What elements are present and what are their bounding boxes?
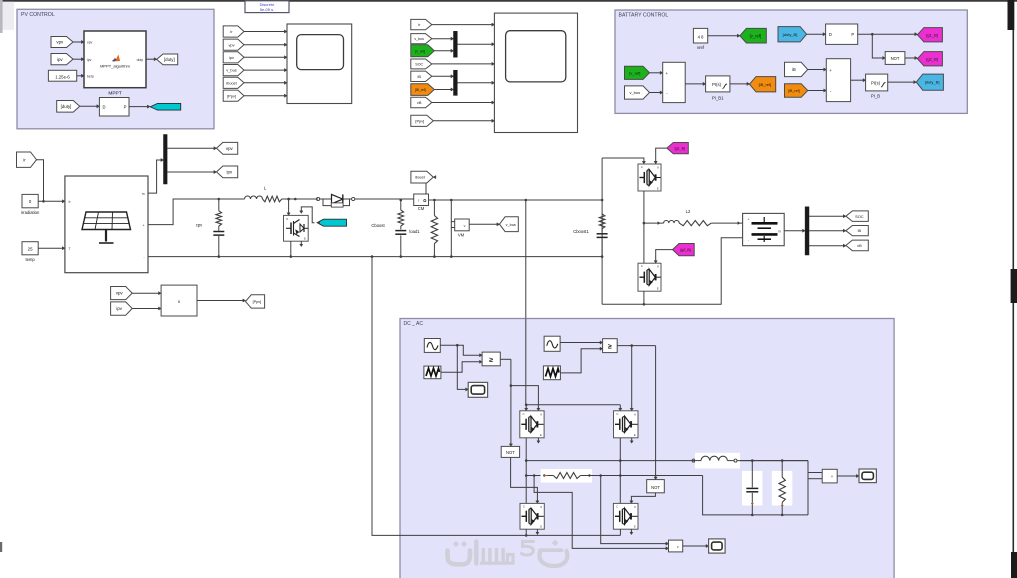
wire IGBT B2 emitter to bottom — [643, 291, 646, 305]
wire top rail to diode — [295, 198, 316, 200]
label cpv — [196, 222, 203, 227]
from tag ir (scope1) — [223, 26, 244, 37]
window top border line — [0, 0, 1017, 2]
wire MPPT duty out — [146, 58, 157, 61]
svg-text:vpv: vpv — [226, 146, 234, 151]
svg-text:P: P — [851, 32, 854, 37]
wire v_bus to sum1 — [650, 91, 663, 94]
wire PWM-B to g1_B — [858, 33, 918, 36]
wire cyan gate annotation to MOSFET gate — [300, 207, 315, 223]
wire VM branch vertical — [450, 200, 453, 258]
node load1 bottom — [433, 255, 436, 258]
svg-text:≥: ≥ — [489, 357, 493, 364]
wire PI_B to duty_B goto — [888, 81, 917, 84]
wire duty_B to PWM generator B — [807, 33, 826, 36]
svg-text:duty: duty — [137, 58, 144, 62]
svg-text:v_bus: v_bus — [629, 90, 640, 95]
node inductor input — [692, 459, 695, 462]
goto tag iboost — [411, 171, 433, 183]
node cpv bottom — [218, 255, 221, 258]
svg-text:T: T — [69, 247, 71, 251]
from tag [iB_ref] orange (scope2) — [411, 84, 435, 96]
wire battery m to demux — [784, 229, 805, 232]
subsystem area BATTARY CONTROL — [615, 10, 967, 113]
label PI_B — [871, 94, 880, 99]
wire ir to scope2 — [432, 23, 495, 26]
svg-text:[v_ref]: [v_ref] — [629, 70, 640, 75]
wire triangle1 to comparator1 — [441, 360, 482, 372]
svg-text:[iB_ref]: [iB_ref] — [788, 89, 799, 93]
svg-text:ipv: ipv — [229, 55, 234, 60]
label temp — [25, 257, 35, 262]
goto tag [duty_B] blue — [916, 74, 943, 90]
logic NOT 2 — [647, 480, 665, 493]
wire mux2 to scope2 — [457, 81, 494, 84]
svg-text:D: D — [829, 32, 832, 37]
wire VM3 to scope3 — [837, 474, 859, 477]
svg-text:iB: iB — [792, 67, 796, 72]
wire demux to vpv goto — [167, 147, 216, 150]
goto tag vB — [846, 240, 868, 251]
wire NOT to g2_B — [905, 56, 918, 59]
triangle wave source 2 — [543, 366, 560, 380]
wire temp to PV array — [38, 247, 65, 250]
node Cboost1 bottom rail junction — [601, 255, 604, 258]
from tag vpv (MPPT input) — [51, 37, 73, 48]
comparator >= 2 — [603, 339, 618, 353]
MATLAB function block MPPT_algorithm — [84, 31, 146, 88]
diode D1 with snubber — [317, 194, 355, 207]
filter capacitor Cf — [746, 459, 758, 516]
wire right leg — [619, 438, 622, 504]
goto tag ir (irradiance source) — [17, 152, 37, 167]
wire demux to SOC — [809, 215, 846, 218]
svg-text:+: + — [747, 217, 749, 221]
demux bus bar (vpv ipv) — [164, 135, 168, 185]
goto tag [g2_B] magenta — [917, 52, 942, 66]
wire g1_B to IGBT B1 gate — [654, 148, 667, 164]
from tag vB (scope2) — [411, 97, 432, 108]
scope block Scope1 — [287, 24, 352, 104]
comparator >= 1 — [482, 352, 500, 366]
svg-text:v_bus: v_bus — [506, 223, 516, 227]
mux1 (scope2) — [454, 31, 458, 57]
svg-text:[g1_B]: [g1_B] — [675, 147, 685, 151]
svg-text:vpv: vpv — [87, 41, 93, 45]
wire ipv to MPPT — [73, 58, 84, 61]
wire iboost to scope1 — [244, 81, 287, 84]
svg-text:[g2_B]: [g2_B] — [926, 56, 938, 61]
svg-text:[duty_B]: [duty_B] — [925, 80, 940, 85]
white patch behind filter capacitor — [742, 471, 762, 506]
wire vpv to scope1 — [244, 43, 287, 46]
svg-text:D: D — [102, 104, 105, 109]
svg-text:MPPT: MPPT — [108, 91, 121, 97]
wire PV - output to bottom rail — [148, 256, 602, 258]
from tag [iB_ref] orange (sum input) — [785, 84, 808, 98]
label Cboost — [371, 223, 385, 228]
wire vpv to MPPT — [73, 40, 84, 43]
wire ir to PV array Ir input — [37, 160, 45, 203]
svg-text:25: 25 — [28, 246, 33, 251]
from tag [Ppv] (scope1) — [223, 90, 244, 101]
svg-text:load1: load1 — [409, 229, 420, 234]
svg-text:NOT: NOT — [891, 56, 900, 61]
svg-text:DC _ AC: DC _ AC — [404, 321, 424, 327]
label PI_B1 — [712, 96, 724, 101]
svg-text:SOC: SOC — [855, 214, 864, 219]
wire diode to CM — [355, 198, 414, 200]
wire comparator1 output down — [500, 359, 512, 446]
PWM generator block D-P — [99, 98, 129, 117]
svg-text:[duty_B]: [duty_B] — [783, 32, 798, 37]
RC branch cpv — [213, 199, 224, 257]
from tag iB (sum input) — [785, 62, 808, 76]
series RL branch L — [245, 196, 319, 202]
filter inductor Lf — [694, 456, 808, 462]
IGBT B1 (battery upper) — [638, 164, 661, 191]
constant 48 (vref) — [693, 28, 707, 43]
wire sine1 branch to display — [457, 345, 468, 391]
logic NOT block (battery) — [885, 52, 905, 65]
wire PV m output to demux — [148, 158, 164, 193]
goto tag vpv (measured) — [217, 142, 238, 154]
svg-text:PI_B: PI_B — [871, 94, 880, 99]
wire irradiation to PV array — [38, 200, 65, 203]
current measurement CM — [414, 194, 429, 206]
svg-text:v: v — [677, 545, 679, 549]
svg-text:[iB_ref]: [iB_ref] — [415, 88, 426, 92]
wire NOT2 to IGBT H4 gate — [630, 493, 656, 504]
wire inverter bottom rail — [525, 529, 621, 537]
wire CM out along top rail — [429, 199, 603, 201]
wire ipv to product — [132, 307, 161, 310]
svg-text:CM: CM — [418, 206, 425, 211]
label MPPT — [108, 91, 121, 97]
svg-text:E: E — [634, 525, 636, 529]
wire filter right end — [807, 461, 809, 515]
wire rail B down to filter bottom — [703, 476, 808, 515]
wire vref to goto — [708, 34, 740, 37]
wire PWM to cyan tag — [129, 105, 150, 108]
voltage measurement VM2 — [669, 540, 683, 552]
IGBT H4 (lower right) — [613, 503, 638, 529]
IGBT H1 emitter stub — [537, 438, 540, 443]
wire iB_ref to sum2 — [808, 89, 827, 92]
MOSFET switch block — [284, 215, 309, 241]
svg-text:vref: vref — [697, 45, 705, 50]
wire comparator2 output — [617, 344, 655, 347]
logic NOT 1 — [501, 446, 519, 457]
IGBT H4 emitter stub — [630, 529, 633, 534]
from tag v_bus (scope1) — [223, 65, 244, 76]
RC branch Cboost1 — [597, 214, 608, 257]
white patch behind load resistor — [772, 471, 793, 506]
svg-text:[duty]: [duty] — [164, 57, 175, 62]
RC branch Cboost — [395, 200, 406, 257]
svg-text:[g2_B]: [g2_B] — [680, 248, 690, 252]
wire rail to MOSFET — [287, 199, 290, 215]
svg-text:ipv: ipv — [226, 170, 232, 175]
from tag ipv (MPPT input) — [51, 54, 73, 65]
svg-text:E: E — [304, 237, 306, 241]
goto tag [duty] — [157, 54, 178, 65]
wire comparator1 to IGBT1 gate — [511, 386, 540, 411]
wire sum1 to PI_B1 — [685, 82, 705, 85]
svg-text:PI(s): PI(s) — [712, 82, 722, 87]
subsystem area PV CONTROL — [17, 9, 214, 129]
constant 1.25e-6 (beta) — [48, 70, 76, 81]
sine wave source 2 — [544, 336, 560, 351]
svg-text:MPPT_algorithm: MPPT_algorithm — [100, 64, 130, 69]
svg-text:[iB_ref]: [iB_ref] — [759, 82, 772, 87]
battery block — [743, 213, 785, 245]
cyan annotation arrow (PV control) — [150, 103, 181, 110]
wire iB to mux2 — [432, 75, 454, 78]
PV array block — [65, 176, 148, 273]
svg-text:irradiation: irradiation — [21, 210, 40, 215]
wire v_bus positive down to inverter — [525, 200, 527, 405]
wire AC rail B (series resistor) — [526, 474, 544, 477]
node cpv top — [218, 198, 221, 201]
wire VM to v_bus goto — [469, 223, 499, 226]
PWM generator block D-P (battery) — [826, 24, 858, 44]
wire battery leg middle — [643, 191, 646, 263]
triangle wave source 1 — [424, 366, 441, 379]
wire iB to sum2 — [808, 68, 827, 71]
demux bus bar (battery measurements) — [805, 207, 809, 255]
goto tag [v_ref] green — [740, 28, 766, 43]
svg-text:iboost: iboost — [226, 80, 237, 85]
wire battery section left vertical — [601, 158, 603, 304]
svg-text:v_bus: v_bus — [414, 37, 424, 41]
subsystem area DC _ AC — [400, 319, 894, 578]
svg-text:4 8: 4 8 — [698, 34, 704, 39]
label vref — [697, 45, 705, 50]
svg-text:[g1_B]: [g1_B] — [926, 32, 938, 37]
label load1 — [409, 229, 420, 234]
node battery section top — [601, 199, 604, 202]
node load1 top — [433, 199, 436, 202]
wire vB to scope2 — [432, 101, 495, 104]
IGBT B2 (battery lower) — [638, 263, 661, 291]
wire battery negative return — [602, 238, 743, 305]
right scrollbar line — [1012, 2, 1014, 578]
svg-text:L2: L2 — [686, 209, 691, 214]
from tag v_bus (sum input) — [625, 86, 650, 99]
svg-text:+: + — [666, 71, 669, 76]
wire v_bus to scope1 — [244, 69, 287, 72]
wire Ppv to scope2 — [433, 119, 494, 122]
svg-text:iB: iB — [417, 74, 421, 79]
svg-text:vpv: vpv — [56, 40, 64, 45]
svg-text:[Ppv]: [Ppv] — [227, 93, 236, 98]
wire product to Ppv goto — [197, 299, 246, 302]
from tag [duty_B] blue — [778, 27, 807, 42]
goto tag ipv (measured) — [217, 166, 238, 178]
IGBT H1 (upper left) — [520, 411, 544, 438]
svg-text:+: + — [829, 68, 832, 73]
svg-text:iboost: iboost — [415, 176, 425, 180]
cyan annotation arrow (boost gate) — [317, 219, 346, 226]
svg-text:E: E — [540, 525, 542, 529]
node inverter supply — [525, 404, 528, 407]
wire sum2 to PI_B — [851, 79, 866, 82]
wire inverter top rail — [525, 405, 622, 411]
wire v_bus to mux1 — [432, 37, 454, 40]
load resistor Rload — [779, 459, 785, 516]
wire to IGBT B1 collector — [602, 158, 645, 164]
wire comparator2 to NOT2 — [654, 346, 657, 480]
sine wave source 1 — [424, 339, 440, 353]
display scope AC output — [859, 469, 876, 483]
resistor branch load1 — [431, 200, 437, 257]
white patch behind filter inductor — [695, 453, 740, 469]
node VM branch top — [450, 199, 453, 202]
white patch behind series resistor — [541, 469, 593, 483]
svg-text:Cboost1: Cboost1 — [573, 229, 589, 234]
MOSFET emitter stub — [300, 241, 303, 246]
wire mux1 to scope2 — [457, 43, 494, 46]
wire PI_B1 to iB_ref goto — [730, 82, 750, 85]
constant 0 irradiation — [22, 194, 38, 207]
wire PWM-B branch to NOT — [872, 34, 885, 59]
label L2 — [686, 209, 691, 214]
wire SOC to scope2 — [432, 62, 495, 65]
powergui block Discrete 5e-05 s — [245, 1, 289, 13]
window top-left gray artifact — [0, 0, 14, 33]
label CM — [418, 206, 425, 211]
from tag iB (scope2) — [411, 71, 432, 81]
PID controller PI_B — [866, 74, 888, 91]
svg-text:1.25e-6: 1.25e-6 — [55, 74, 70, 79]
IGBT H3 emitter stub — [536, 529, 539, 534]
node Cboost top — [400, 199, 403, 202]
from tag SOC (scope2) — [411, 59, 432, 69]
svg-text:vpv: vpv — [228, 42, 234, 47]
svg-text:temp: temp — [25, 257, 35, 262]
svg-text:v: v — [831, 475, 833, 479]
from tag vpv (scope1) — [223, 39, 244, 50]
svg-text:[Ppv]: [Ppv] — [415, 118, 424, 123]
voltage measurement VM — [451, 219, 469, 231]
svg-text:[v_ref]: [v_ref] — [750, 33, 762, 38]
scope block Scope2 — [494, 13, 577, 132]
right scrollbar thumb middle — [1011, 269, 1017, 303]
IGBT H2 emitter stub — [630, 438, 633, 443]
wire duty to PWM generator — [80, 105, 100, 108]
svg-text:v_bus: v_bus — [226, 68, 236, 73]
goto tag [iB_ref] orange — [750, 77, 776, 92]
watermark khamsat — [448, 540, 568, 566]
from tag ipv (scope1) — [223, 52, 244, 63]
IGBT H3 (lower left) — [520, 503, 544, 529]
wire left leg — [525, 438, 528, 504]
goto tag [g1_B] magenta — [917, 28, 942, 42]
svg-text:PV CONTROL: PV CONTROL — [21, 12, 55, 18]
from tag ipv (product) — [111, 302, 133, 315]
wire demux to iB — [809, 229, 846, 232]
svg-text:≥: ≥ — [608, 344, 612, 351]
node MOSFET branch top — [287, 198, 290, 201]
svg-text:vB: vB — [417, 100, 422, 105]
series resistor R1 — [543, 473, 591, 479]
wire comparator2 to IGBT2 gate — [630, 346, 633, 411]
svg-text:PI_B1: PI_B1 — [712, 96, 724, 101]
svg-text:beta: beta — [87, 74, 94, 78]
svg-text:SOC: SOC — [415, 63, 423, 67]
svg-text:E: E — [634, 433, 636, 437]
label irradiation — [21, 210, 40, 215]
label VM — [458, 233, 465, 238]
svg-text:E: E — [657, 287, 659, 291]
wire g2_B to IGBT B2 gate — [654, 250, 672, 264]
voltage measurement VM output — [808, 469, 837, 483]
series RL branch L2 — [644, 220, 743, 225]
wire sine2 to comparator2 — [560, 341, 603, 344]
svg-text:ipv: ipv — [116, 306, 122, 311]
goto tag v_bus — [500, 217, 519, 232]
wire series resistor tap 1 (to VM2) — [534, 476, 668, 551]
svg-text:m: m — [778, 229, 781, 233]
sum block (iB - iB_ref) — [826, 59, 850, 102]
wire sine1 to comparator1 — [440, 344, 482, 357]
PID controller PI_B1 — [706, 76, 730, 92]
wire vpv to product — [132, 292, 161, 295]
svg-text:P: P — [124, 104, 127, 109]
from tag v_bus (scope2) — [411, 34, 432, 44]
constant 25 temp — [22, 242, 38, 255]
svg-text:NOT: NOT — [506, 450, 515, 455]
svg-text:vB: vB — [857, 243, 862, 248]
wire beta to MPPT — [77, 74, 84, 77]
svg-text:BATTARY CONTROL: BATTARY CONTROL — [619, 13, 669, 19]
goto tag [Ppv] — [246, 295, 265, 308]
wire v_bus negative down to inverter — [371, 255, 527, 535]
sum block (v_ref - v_bus) — [663, 62, 686, 102]
svg-text:VM: VM — [458, 233, 465, 238]
wire demux to vB — [809, 244, 846, 247]
wire VM2 to scope4 — [683, 544, 709, 547]
wire triangle2 to comparator2 — [560, 347, 602, 373]
svg-text:cpv: cpv — [196, 222, 203, 227]
svg-text:[v_ref]: [v_ref] — [415, 49, 425, 53]
right scrollbar thumb top — [1008, 0, 1015, 30]
from tag ir (scope2) — [411, 19, 432, 29]
label L — [264, 186, 267, 191]
wire CM to iboost goto — [426, 176, 436, 195]
goto tag iB — [846, 226, 868, 236]
from tag [duty] (PWM input) — [57, 101, 80, 113]
wire MOSFET source to bottom rail — [290, 241, 293, 258]
svg-text:vpv: vpv — [116, 291, 124, 296]
IGBT H2 (upper right) — [614, 411, 639, 438]
wire NOT1 to IGBT H3 gate — [511, 457, 539, 503]
label Cboost1 — [573, 229, 589, 234]
wire v_bus positive inside inverter box — [525, 319, 527, 406]
svg-text:ipv: ipv — [57, 57, 63, 62]
wire demux to ipv goto — [167, 170, 216, 173]
svg-text:m: m — [142, 192, 145, 196]
svg-text:v: v — [464, 224, 466, 228]
product block vpv*ipv — [161, 285, 197, 316]
svg-text:iB: iB — [858, 228, 862, 233]
from tag [v_ref] green (sum input) — [625, 66, 650, 79]
display scope inverter — [709, 539, 726, 553]
svg-text:E: E — [540, 433, 542, 437]
svg-text:[duty]: [duty] — [61, 104, 72, 109]
from tag [g1_B] magenta (gate) — [667, 143, 688, 154]
